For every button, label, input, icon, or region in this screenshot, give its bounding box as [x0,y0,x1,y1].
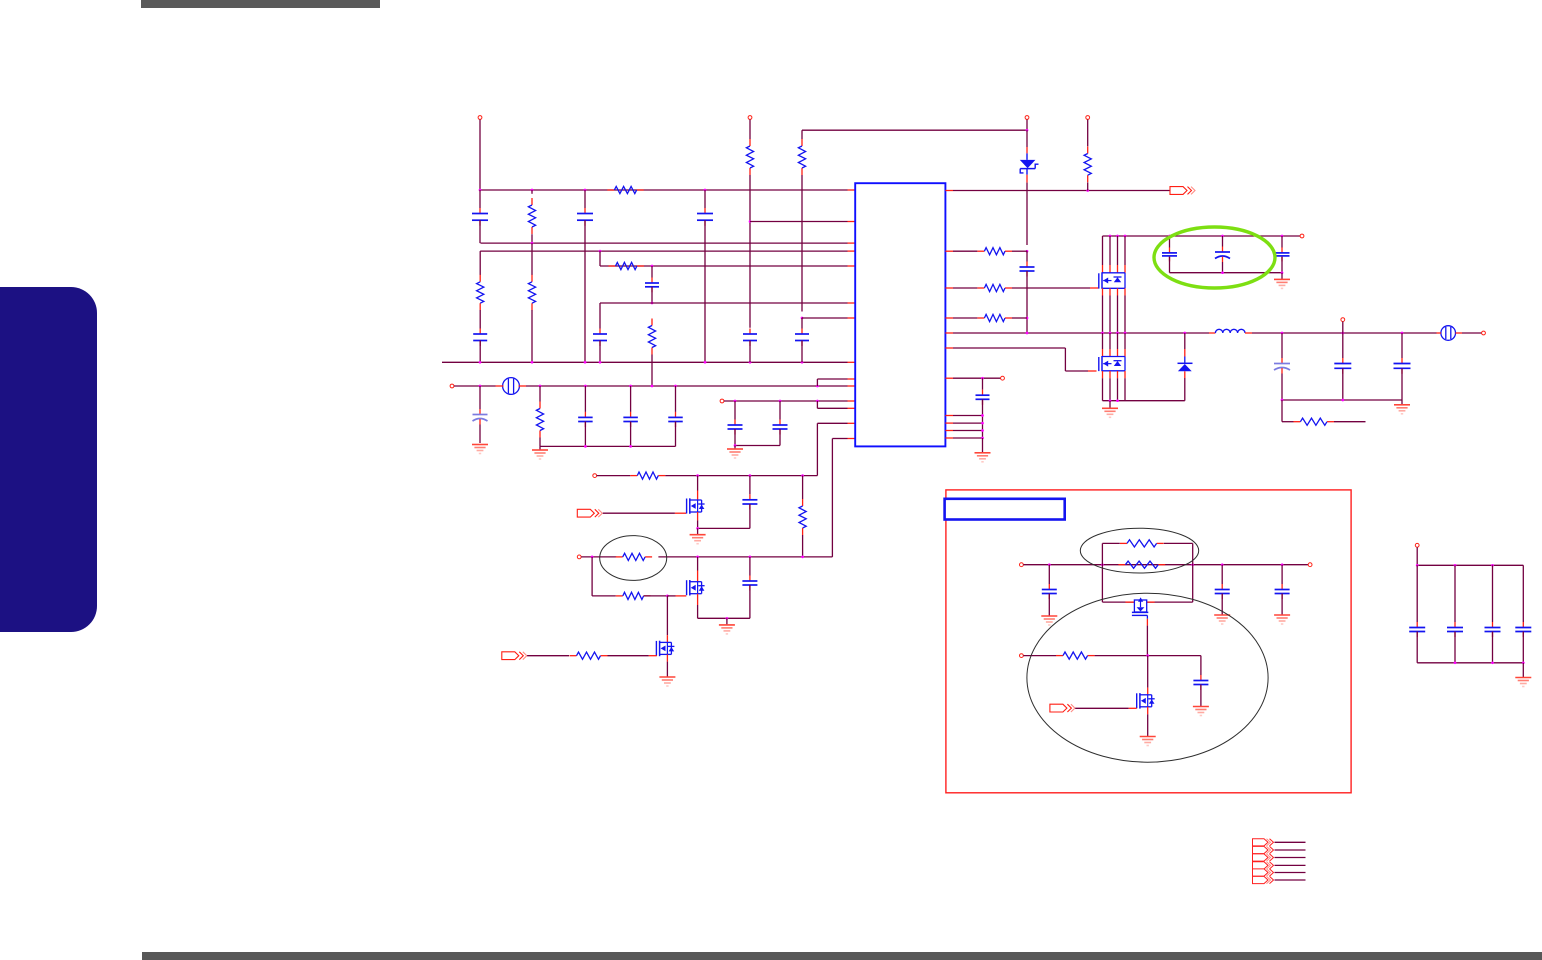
wire branch y266 [599,251,601,266]
wire pin y318 + resistor [945,317,953,319]
ground gnd1282 [1281,273,1283,279]
resistor R532a [531,190,533,194]
capacitor C-green1 [1169,247,1171,253]
wire pin y378 + terminal [945,377,953,379]
wire pin y379 to bus [817,378,847,380]
capacitor C705 [704,190,706,208]
terminal T1310 [1308,563,1312,567]
transistor Q7 [1147,656,1149,688]
capacitor C749a [749,476,751,495]
transistor Q1 high-side columns [1102,236,1104,265]
wire pin y438 going down [832,438,847,440]
capacitor C1282 polarized out [1281,333,1283,358]
wire q4 src line [698,617,750,619]
wire pin y251 right + resistor [945,250,953,252]
node j652b [651,302,654,305]
capacitor C802 [801,318,803,329]
ground gnd1523 [1522,663,1524,677]
red section box [946,490,1351,793]
resistor R266 [609,265,616,267]
loop bottom [1102,601,1192,603]
capacitor C750 [749,329,751,335]
wire SW out rail [1252,332,1437,334]
resistor R-row2 circled [616,556,623,558]
capacitor C749b [749,557,751,576]
black ellipse big [1027,593,1268,762]
wire rail y251 [480,250,847,252]
resistor R802b [802,476,804,499]
ground gnd667 [659,676,675,678]
ground gnd697 [697,528,699,534]
ground gnd-bank [1109,401,1111,408]
transistor Q5 [666,596,668,635]
capacitor C630 [630,386,632,412]
transistor Q4 [697,557,699,571]
ground gnd1049 [1041,615,1057,617]
capacitor C675 [675,386,677,412]
capacitor C1282 [1281,247,1283,253]
capacitor C480b [479,329,481,335]
wire pin y333 SW [945,332,953,334]
capacitor C585 [584,190,586,208]
wire rail y190 [480,189,848,191]
resistor R532b [531,243,533,275]
wire pin y348 gate lower [945,347,953,349]
transistor Q3 [697,476,699,491]
wire pin y408 [817,407,847,409]
wire x750 [749,175,751,328]
capacitor C735 [734,401,736,420]
terminal Tout [1482,331,1486,335]
wire caps top taps [1169,236,1171,248]
capacitor C600 [599,303,601,329]
wire rail y243 [481,242,848,244]
resistor R-fb [1293,421,1300,423]
blue label box [945,499,1065,520]
wire bus y386 [526,385,848,387]
inductor L1 [1209,332,1215,334]
resistor R-row1 [630,475,637,477]
connector flag stack [1253,839,1269,846]
flag stack spine [1252,839,1254,884]
terminal VIN2 x750 [748,116,752,120]
terminal bus-left [450,384,454,388]
node j802 y318 [801,317,804,320]
ground gnd735 [734,446,736,449]
terminal zener top [1025,116,1029,120]
ground gnd540 [539,446,541,449]
node junctions rail190 [479,189,482,192]
wire capbank bottom [1417,662,1523,664]
capacitor C1402 out [1401,333,1403,358]
capacitor C1283 [1281,565,1283,584]
bead out connector [1441,326,1456,341]
black ellipse small par [1080,528,1198,573]
transistor Q2 source columns [1102,371,1104,378]
terminal T1021b row [1020,654,1024,658]
terminal T1021 rail [1020,563,1024,567]
resistor R-par1 top [1102,542,1119,544]
wire caps bottom y272 [1170,272,1283,274]
terminal T1087 [1086,116,1090,120]
capacitor C780 [779,401,781,420]
terminal T1342 [1341,318,1345,322]
resistor R190 [607,189,614,191]
wire feedback y421 [1281,400,1283,422]
wire pin y288 gate upper + resistor [945,287,953,289]
capacitor C480pol [479,386,481,409]
ground gnd726 [726,618,728,624]
diode D2 schottky [1183,332,1186,335]
resistor R-q7gate [1056,655,1063,657]
wire pin y190 right [945,190,953,192]
transistor Q2 low-side mosfet [1102,357,1125,371]
terminal T1417 [1415,543,1419,547]
ground gnd1402 [1401,400,1403,404]
zener D1 [1026,130,1028,147]
resistor R480b [479,251,481,275]
wire branch y303 [600,302,848,304]
capbank columns [1416,565,1418,622]
op-amp U1 PWM controller IC [855,183,945,446]
parallel loop sides [1101,543,1103,602]
transistor Q2 low-side columns [1102,333,1104,349]
wire out gnd line y400 [1282,399,1402,401]
node j1027 y251 [1026,250,1029,253]
resistor R750 [749,139,751,146]
wire VIN rail y236 [1103,235,1301,237]
terminal T594 row1 [593,474,597,478]
terminal T722 y401 [720,399,724,403]
wire rail y362 [442,361,848,363]
wire gnd line y446 [540,445,676,447]
ground gnd1147 [1140,736,1156,738]
capacitor C1342 out [1342,333,1344,358]
ground gnd983 [982,438,984,452]
wire y445 gnd line [735,445,780,447]
flag input EN1 [577,509,594,517]
node j652a [651,265,654,268]
wire capbank top [1417,564,1523,566]
capacitor C1222 [1221,565,1223,584]
resistor R-row3 [616,595,623,597]
ground gnd480 [472,444,488,446]
ferrite bead FB1 [503,378,520,395]
terminal T1302 [1300,234,1304,238]
wire top y130 to zener column [802,129,1027,131]
capacitor C983 [982,378,984,390]
ground gnd1283 [1274,614,1290,616]
terminal VIN1 [478,116,482,120]
capacitor C590 [584,386,586,412]
capacitor C1027 bootstrap [1026,251,1028,261]
wire cap branch [1200,656,1202,675]
resistor R-gate3 [570,655,577,657]
resistor R652 [651,319,653,326]
terminal T579 row2 [577,555,581,559]
transistor Q1 source columns [1102,288,1104,295]
flag output EN [1170,187,1187,195]
resistor R802 [801,130,803,139]
transistor Q6 vertical inline [1125,601,1134,603]
wire pin y221 [750,221,848,223]
node j1027 y318 [1026,317,1029,320]
black ellipse highlight small [600,536,667,581]
wire bottom rail y400 [1103,400,1185,402]
flag input EN2 [502,652,519,660]
transistor Q1 high-side mosfet [1102,273,1125,289]
capacitor C-green2 polarized [1222,247,1224,253]
ground gnd1200 [1193,706,1209,708]
resistor R-par2 on rail [1118,564,1125,566]
ground gnd1222 [1214,614,1230,616]
wire pins y415-438 cluster [945,415,953,417]
flag input EN3 [1050,704,1067,712]
capacitor C480a [479,190,481,208]
green highlight ellipse [1154,227,1275,288]
capacitor C652 [651,266,653,278]
wire row2 branch down [591,557,593,596]
wire pin y318 [802,317,848,319]
resistor R1087 [1087,147,1089,154]
wire pin y423 going down [817,422,847,424]
resistor R540 [539,386,541,402]
capacitor C1049 [1048,565,1050,584]
wire q3 src line [698,527,750,529]
